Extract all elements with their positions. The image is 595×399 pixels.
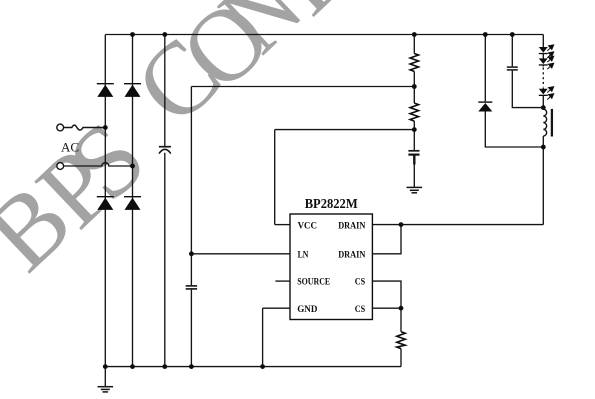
- wire: GND pin lead: [263, 307, 290, 309]
- LED1 emission arrows: [547, 45, 553, 58]
- inductor L1: [543, 109, 546, 136]
- node: bottom rail at bridge right column: [130, 364, 135, 369]
- LED LED1: [539, 47, 548, 54]
- diode D1 (bridge upper-left): [97, 83, 114, 97]
- wire: input cap column upper: [164, 35, 166, 147]
- wire: bottom rail: [105, 366, 401, 368]
- node: LED / cap junction: [541, 105, 546, 110]
- svg-text:LN: LN: [298, 250, 309, 260]
- node: top rail at freewheel diode: [483, 32, 488, 37]
- wire: CS1 lead: [372, 281, 401, 308]
- node: top rail at input cap: [162, 32, 167, 37]
- svg-text:BP2822M: BP2822M: [305, 196, 358, 211]
- svg-text:SOURCE: SOURCE: [297, 278, 330, 288]
- node: bottom AC junction: [130, 164, 135, 169]
- capacitor C2 (LN filter): [186, 286, 197, 289]
- node: bottom rail at left column: [103, 364, 108, 369]
- node: bottom rail at input cap: [162, 364, 167, 369]
- svg-text:CS: CS: [355, 278, 365, 288]
- wire: LED string column: [542, 35, 544, 225]
- wire: SOURCE pin stub: [275, 280, 290, 282]
- wire: output cap column: [512, 35, 543, 108]
- wire: DRAIN bus: [372, 224, 543, 226]
- wire: CS2 lead: [372, 307, 401, 309]
- LED3 emission arrows: [547, 87, 553, 100]
- wire: GND vertical: [262, 308, 264, 366]
- svg-text:DRAIN: DRAIN: [338, 221, 365, 231]
- diode D5 freewheel: [478, 101, 492, 111]
- wire: divider cap to ground: [413, 155, 415, 187]
- capacitor C1 polarized input cap: [159, 147, 171, 154]
- wire: top rail: [105, 34, 543, 36]
- svg-text:DRAIN: DRAIN: [338, 250, 365, 260]
- wire: bridge left column: [104, 35, 106, 367]
- node: divider upper tap: [412, 84, 417, 89]
- svg-text:CS: CS: [355, 305, 365, 315]
- node: top rail at divider: [412, 32, 417, 37]
- svg-text:VCC: VCC: [298, 221, 318, 231]
- wire: LN feed horizontal: [191, 86, 414, 88]
- wire: VCC vertical: [274, 130, 276, 225]
- wire: DRAIN2 lead: [372, 225, 401, 254]
- fuse squiggle on top AC lead: [64, 125, 106, 130]
- resistor R2: [410, 103, 418, 121]
- wire: input cap column lower: [164, 153, 166, 367]
- svg-text:AC: AC: [61, 140, 79, 155]
- capacitor C3 (divider filter): [408, 151, 419, 165]
- AC terminal bottom: [57, 163, 64, 170]
- LED LED3: [539, 89, 548, 96]
- diode D4 (bridge lower-right): [124, 196, 141, 210]
- wire: resistor divider column: [413, 35, 415, 151]
- wire: VCC feed horizontal: [275, 129, 415, 131]
- LED2 emission arrows: [547, 56, 553, 69]
- capacitor C4 (output): [507, 67, 518, 70]
- node: bottom rail at LN column: [189, 364, 194, 369]
- node: top AC junction: [103, 125, 108, 130]
- LED LED2: [539, 58, 548, 65]
- resistor R3 (CS sense): [397, 332, 405, 349]
- wire: freewheel diode column: [485, 35, 543, 148]
- inductor core bar: [551, 109, 553, 137]
- node: divider lower tap: [412, 127, 417, 132]
- wire: LN pin lead: [191, 253, 290, 255]
- node: top rail at bridge right column: [130, 32, 135, 37]
- wire: CS resistor column: [400, 308, 402, 366]
- resistor R1: [410, 54, 418, 72]
- node: inductor / diode junction: [541, 145, 546, 150]
- AC terminal top: [57, 124, 64, 131]
- svg-text:GND: GND: [297, 305, 317, 315]
- node: CS junction: [399, 306, 404, 311]
- wire: LED dotted segment: [542, 68, 544, 88]
- node: bottom rail at GND lead: [260, 364, 265, 369]
- op-amp IC U1 BP2822M box: [290, 214, 372, 320]
- wire: bottom AC lead with hop over left column: [64, 163, 133, 166]
- node: LN junction: [189, 251, 194, 256]
- diode D2 (bridge upper-right): [124, 83, 141, 97]
- wire: ground stub main: [104, 367, 106, 387]
- wire: LN column lower: [190, 290, 192, 367]
- ground symbol G2 (divider): [407, 187, 423, 192]
- diode D3 (bridge lower-left): [97, 196, 114, 210]
- ground symbol G1 (main): [98, 387, 114, 392]
- node: top rail at output cap: [510, 32, 515, 37]
- wire: bridge right column: [132, 35, 134, 367]
- node: DRAIN junction: [399, 222, 404, 227]
- wire: LN column upper: [190, 87, 192, 286]
- wire: VCC pin lead: [275, 224, 290, 226]
